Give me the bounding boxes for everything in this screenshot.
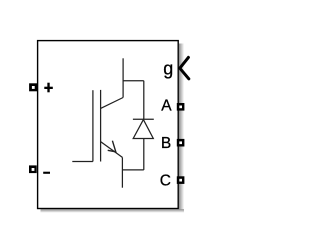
- wire: collector top lead: [122, 58, 124, 97]
- wire: top horizontal to diode branch: [123, 80, 144, 82]
- port square A: [177, 103, 185, 111]
- svg-text:B: B: [161, 135, 171, 152]
- wire: emitter bottom lead: [121, 157, 123, 187]
- label +: [44, 83, 53, 93]
- block drop shadow bottom: [41, 209, 185, 213]
- port square - (left, node -): [29, 165, 37, 173]
- block drop shadow right: [179, 44, 184, 211]
- svg-text:A: A: [161, 97, 172, 114]
- wire: bottom horizontal: [122, 169, 143, 171]
- block body U1: [38, 41, 179, 209]
- port square + (left, node +): [29, 83, 37, 91]
- svg-text:g: g: [163, 59, 173, 79]
- port square C: [177, 176, 185, 184]
- transistor Q1 collector diagonal: [101, 98, 124, 109]
- diode D1 triangle: [133, 120, 153, 139]
- diode D1 cathode bar: [133, 118, 154, 120]
- wire: diode lower branch: [143, 139, 145, 170]
- svg-text:C: C: [160, 172, 171, 189]
- port square B: [177, 139, 185, 147]
- transistor Q1 gate lead: [72, 161, 93, 163]
- transistor Q1 body bar: [100, 90, 102, 162]
- transistor Q1 gate bar: [92, 90, 94, 161]
- label -: [43, 172, 50, 174]
- transistor Q1 emitter diagonal: [101, 142, 123, 158]
- wire: diode upper branch: [143, 81, 145, 120]
- input port chevron g: [180, 57, 189, 78]
- emitter arrowhead: [108, 141, 116, 152]
